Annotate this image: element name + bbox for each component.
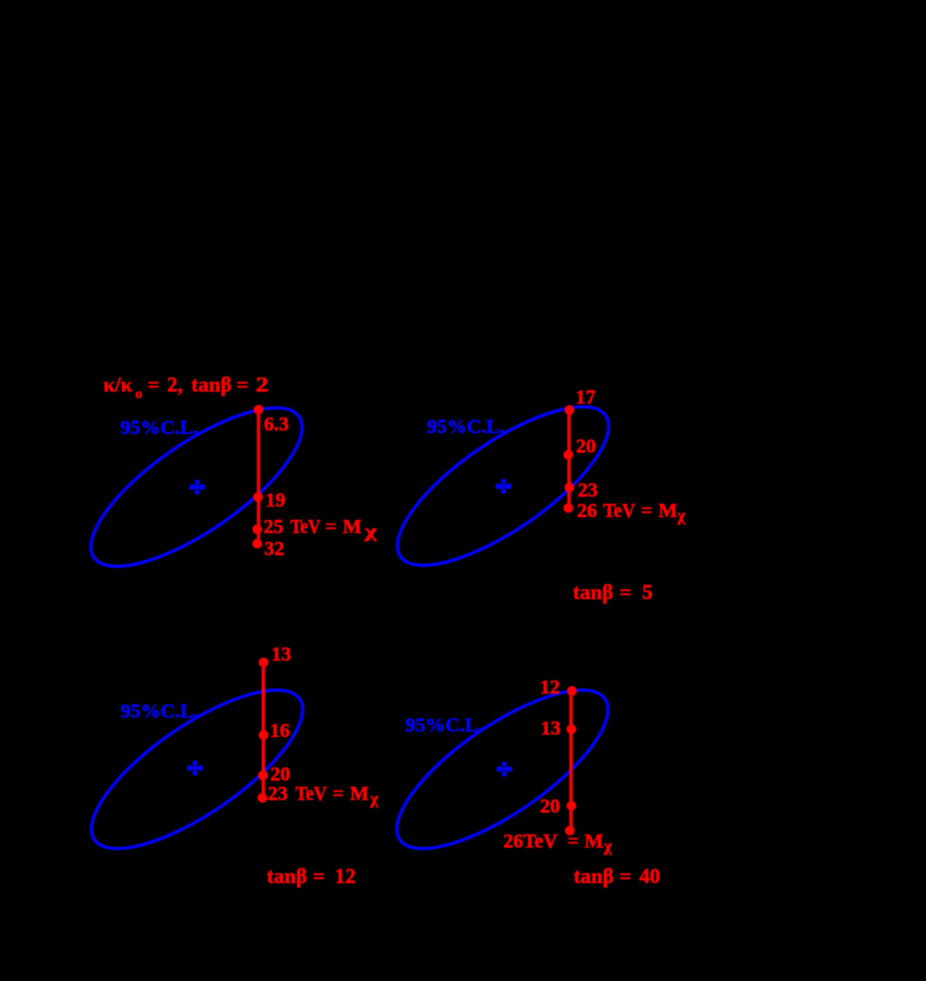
svg-text:TeV: TeV xyxy=(290,516,321,538)
svg-text:12: 12 xyxy=(540,677,560,699)
svg-text:=: = xyxy=(568,831,579,853)
svg-text:6.3: 6.3 xyxy=(264,414,289,436)
svg-text:=: = xyxy=(325,516,336,538)
svg-text:95%C.L.: 95%C.L. xyxy=(427,416,505,438)
svg-text:=: = xyxy=(236,373,248,397)
svg-text:tanβ: tanβ xyxy=(574,864,614,888)
svg-text:=: = xyxy=(332,783,343,805)
svg-text:32: 32 xyxy=(264,538,284,560)
svg-text:13: 13 xyxy=(541,718,561,740)
svg-text:20: 20 xyxy=(576,436,596,458)
svg-text:=: = xyxy=(619,864,631,888)
svg-text:M: M xyxy=(658,500,677,522)
svg-text:5: 5 xyxy=(642,580,653,604)
svg-text:2: 2 xyxy=(256,373,269,397)
svg-text:16: 16 xyxy=(270,720,290,742)
svg-text:95%C.L.: 95%C.L. xyxy=(121,701,199,723)
svg-text:M: M xyxy=(584,831,603,853)
svg-text:23: 23 xyxy=(578,480,598,502)
svg-text:95%C.L.: 95%C.L. xyxy=(120,417,198,439)
svg-text:χ: χ xyxy=(603,837,612,856)
svg-text:26: 26 xyxy=(577,500,597,522)
svg-text:=: = xyxy=(641,500,652,522)
svg-text:tanβ: tanβ xyxy=(573,580,613,604)
svg-text:20: 20 xyxy=(540,795,560,817)
svg-text:25: 25 xyxy=(264,516,284,538)
svg-text:=: = xyxy=(619,580,631,604)
svg-text:12: 12 xyxy=(335,864,356,888)
svg-text:χ: χ xyxy=(676,506,685,525)
svg-text:23: 23 xyxy=(268,783,288,805)
svg-text:TeV: TeV xyxy=(295,783,327,805)
svg-text:40: 40 xyxy=(639,864,660,888)
svg-text:20: 20 xyxy=(270,763,290,785)
svg-text:17: 17 xyxy=(576,387,596,409)
svg-text:χ: χ xyxy=(369,789,378,808)
svg-text:95%C.L.: 95%C.L. xyxy=(405,715,483,737)
svg-text:M: M xyxy=(343,516,362,538)
svg-text:13: 13 xyxy=(271,644,291,666)
svg-text:=: = xyxy=(148,373,160,397)
svg-text:tanβ: tanβ xyxy=(191,373,231,397)
svg-text:19: 19 xyxy=(265,490,285,512)
svg-text:=: = xyxy=(313,864,325,888)
svg-text:κ/κ: κ/κ xyxy=(103,373,132,397)
svg-text:tanβ: tanβ xyxy=(267,864,307,888)
svg-text:o: o xyxy=(135,387,142,402)
svg-text:M: M xyxy=(350,783,369,805)
svg-text:2,: 2, xyxy=(167,373,183,397)
svg-text:χ: χ xyxy=(363,521,377,541)
svg-text:TeV: TeV xyxy=(603,500,636,522)
svg-text:26TeV: 26TeV xyxy=(503,831,558,853)
